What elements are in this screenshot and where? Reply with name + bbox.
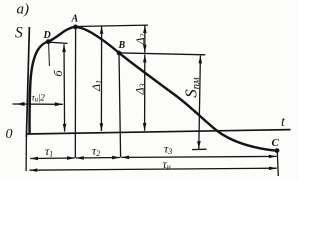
extension under D dot bbox=[48, 43, 51, 67]
tau_i/2 right arrowhead bbox=[55, 102, 63, 106]
point B dot bbox=[117, 51, 122, 56]
dimension Delta2 vertical bbox=[144, 25, 146, 52]
svg-text:0: 0 bbox=[6, 127, 13, 142]
svg-text:S: S bbox=[15, 25, 23, 42]
svg-text:τ3: τ3 bbox=[164, 142, 172, 157]
A extension line to tau boundary bbox=[74, 28, 76, 158]
svg-text:A: A bbox=[71, 14, 79, 25]
svg-text:б: б bbox=[51, 70, 65, 77]
dimension tau2 bbox=[76, 157, 120, 160]
dimension tau_n bbox=[30, 168, 277, 170]
svg-text:τ1: τ1 bbox=[45, 144, 53, 159]
point C dot bbox=[275, 148, 280, 153]
svg-text:τ2: τ2 bbox=[92, 144, 100, 159]
D level line bbox=[49, 42, 68, 43]
svg-text:t: t bbox=[281, 115, 286, 130]
B extension line to tau boundary bbox=[119, 54, 121, 157]
A level line bbox=[76, 25, 148, 26]
dimension Delta1 vertical bbox=[100, 26, 102, 131]
axis extension below origin bbox=[25, 137, 27, 171]
Spm bottom tick bbox=[192, 148, 207, 150]
B level line bbox=[120, 53, 205, 55]
svg-text:Δ2: Δ2 bbox=[133, 33, 148, 45]
signal curve bbox=[30, 27, 277, 151]
dimension tau3 bbox=[121, 156, 276, 157]
svg-text:Sпм: Sпм bbox=[182, 77, 203, 98]
svg-text:C: C bbox=[272, 137, 280, 149]
dimension tau1 bbox=[30, 157, 75, 160]
svg-text:Δ3: Δ3 bbox=[133, 83, 148, 95]
dimension Spm vertical bbox=[199, 56, 201, 149]
S axis bbox=[26, 27, 29, 137]
point A dot bbox=[73, 25, 78, 30]
svg-text:D: D bbox=[43, 30, 51, 41]
C extension line bbox=[277, 152, 278, 176]
t axis bbox=[26, 130, 290, 134]
tau_i/2 left arrowhead bbox=[17, 102, 25, 106]
dimension b (б) vertical bbox=[63, 44, 66, 131]
svg-text:τн: τн bbox=[163, 157, 171, 172]
svg-text:τи|2: τи|2 bbox=[32, 94, 46, 104]
tau_i/2 dimension line bbox=[13, 103, 63, 105]
svg-text:Δ1: Δ1 bbox=[89, 80, 104, 92]
svg-text:B: B bbox=[118, 40, 126, 51]
svg-text:а): а) bbox=[17, 2, 30, 18]
point D dot bbox=[46, 39, 51, 44]
dimension Delta3 vertical bbox=[144, 55, 146, 131]
